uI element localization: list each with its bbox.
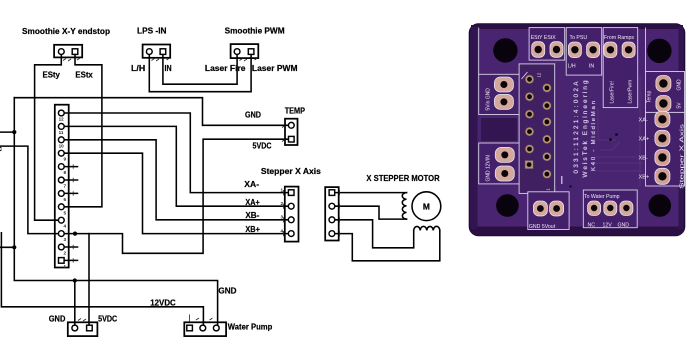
svg-text:1: 1 [64,264,67,269]
wire motor pin4 to coil L2 right [332,230,440,260]
svg-text:12: 12 [59,117,65,122]
pin J5.5 [58,164,64,170]
svg-text:GND 5Vout: GND 5Vout [529,224,556,230]
svg-text:XA-: XA- [244,179,259,189]
tick J2 pins [152,58,170,61]
pin J5.9 [58,217,64,223]
inductor L1 motor winding A [402,193,406,220]
pin J5.10 [58,231,64,237]
wire GND net top run to TEMP pin1 [14,98,291,126]
wire 5VDC drop to J8 pin2 [88,234,90,328]
svg-text:Temp: Temp [647,91,653,103]
svg-text:2: 2 [64,251,67,256]
wire GND branch left edge lower [0,246,14,248]
pin J9.2 [200,325,206,331]
svg-text:9: 9 [64,157,67,162]
junction dot GND upper left [12,130,16,134]
PCB vias [569,133,618,188]
svg-text:10: 10 [59,143,65,148]
wire ESty to pin9 [35,54,62,220]
stub strip pin7 [61,192,77,194]
svg-text:Smoothie PWM: Smoothie PWM [225,26,285,36]
motor M1 circle [412,192,441,221]
pin J5.8 [58,204,64,210]
svg-text:IN: IN [589,64,594,70]
svg-text:GND: GND [245,110,261,120]
pin J7.1 [329,190,335,196]
tick J1 pins [63,58,80,61]
pin J3.2 [248,49,254,55]
stub strip pin5 [61,166,77,168]
wire 5VDC net from left edge to pin10 to TEMP pin2 [0,139,291,253]
PCB mounting hole top-right [647,39,671,63]
pin J5.4 [58,150,64,156]
svg-text:GND: GND [218,286,236,296]
svg-text:5Vin GND: 5Vin GND [486,88,492,111]
connector J5 12-pin header strip [55,105,69,268]
svg-text:5VDC: 5VDC [98,314,117,324]
connector J8 GND/5VDC power [68,322,98,336]
wire strip pin3 to XB- [61,140,291,220]
pin J6.4 [288,231,294,237]
pin J6.1 [288,190,294,196]
pin J1.1 [58,49,64,55]
PCB mounting hole bottom-right [649,194,672,217]
svg-text:XA+: XA+ [639,137,650,143]
PCB rotated silkscreen labels [486,72,686,190]
pin J6.2 [288,203,294,209]
tick J9 pin1 [190,315,213,323]
stub strip pin6 [61,179,77,181]
stub strip pin11 [61,246,77,248]
PCB panel To PSU [566,28,602,76]
svg-text:X STEPPER MOTOR: X STEPPER MOTOR [366,173,439,183]
stub strip pin12 [61,259,77,261]
pin J5.12 [59,258,65,264]
PCB pads 5Vin GND [494,77,514,181]
tick J5 stub pins [72,164,74,262]
connector J2 LPS -IN [143,45,171,58]
PCB vertical id text [573,80,597,177]
svg-text:XB-: XB- [245,210,259,220]
svg-text:XB+: XB+ [245,224,260,234]
svg-text:IN: IN [165,63,172,73]
junction dot 5VDC at pin10 [73,232,77,236]
wire EStx to pin8 [61,54,102,206]
tick J6 wires [283,190,285,236]
svg-text:Laser PWM: Laser PWM [252,63,298,73]
PCB dark band bottom [470,227,685,236]
svg-text:0331:11221:4:002A: 0331:11221:4:002A [573,81,580,174]
PCB pads bottom connectors [533,201,633,216]
inductor L2 motor winding B [414,226,440,230]
PCB dark band left [471,27,478,229]
svg-text:3: 3 [64,237,67,242]
svg-text:XB+: XB+ [639,175,650,181]
svg-text:12: 12 [537,72,542,77]
pin J5.3 [58,137,64,143]
wire GND net vertical and bottom run to Water Pump pin3 [14,98,217,328]
svg-text:12V: 12V [603,223,613,229]
PCB panel Stepper X Axis [646,112,685,186]
pin J4.1 [288,122,294,128]
wire motor pin2 to coil L1 bottom [332,206,407,219]
wire LPS IN to Laser Fire [163,54,237,84]
pin J6.3 [288,217,294,223]
wire motor pin1 to coil L1 top [332,192,407,194]
PCB dark band top [471,25,683,29]
svg-text:2: 2 [281,201,284,206]
svg-text:Stepper X Axis: Stepper X Axis [680,123,686,189]
svg-text:12VDC: 12VDC [150,298,175,308]
pin J9.1 [187,325,193,331]
svg-text:TEMP: TEMP [285,105,306,115]
PCB panel To Water Pump [583,190,637,228]
connector J6 Stepper X Axis [285,187,299,242]
pin J8.2 [87,325,93,331]
svg-text:4: 4 [64,224,67,229]
PCB panel From Ramps [603,28,638,108]
svg-text:L/H: L/H [131,63,145,73]
PCB pads right column [655,76,671,185]
pin J7.3 [329,217,335,223]
connector J4 TEMP [285,119,298,145]
PCB photo board [470,24,686,236]
svg-text:GND: GND [49,314,66,324]
tick J4 pins [282,126,285,142]
pin J7.2 [329,203,335,209]
pin J2.2 [160,49,166,55]
svg-text:To PSU: To PSU [570,35,588,41]
pin J1.2 [72,49,78,55]
wire GND drop to J8 pin1 [74,281,76,329]
svg-text:XA+: XA+ [245,197,259,207]
tick J8 pins [78,319,86,322]
wire strip pin1 to XA- [61,113,291,193]
pin J5.6 [58,177,64,183]
svg-text:3: 3 [281,215,284,220]
svg-text:LaserFire!: LaserFire! [610,81,616,104]
PCB silkscreen labels [529,35,649,230]
svg-text:M: M [423,201,430,211]
svg-text:To Water Pump: To Water Pump [584,194,620,200]
svg-text:XA-: XA- [639,118,648,124]
PCB trace lines [522,60,665,192]
wire strip pin2 to XA+ [61,126,291,206]
svg-text:4: 4 [281,228,284,233]
svg-text:LPS -IN: LPS -IN [137,26,167,36]
svg-text:Laser Fire: Laser Fire [205,63,246,73]
svg-text:7: 7 [64,184,67,189]
PCB panel GND 12VIN [479,143,522,184]
pin J4.2 [289,136,295,142]
PCB pads top header row [532,42,635,58]
svg-text:Stepper X Axis: Stepper X Axis [261,166,321,176]
wire motor pin3 to coil L2 left [332,220,414,248]
PCB mounting hole top-left [493,38,517,62]
junction dot GND lower left [12,245,16,249]
wire strip pin4 to XB+ [61,153,291,233]
svg-text:5: 5 [64,210,67,215]
pin J3.1 [234,49,240,55]
PCB panel header strip [519,64,555,194]
svg-text:EStY EStX: EStY EStX [531,35,557,41]
PCB panel EStY/EStX [529,28,565,61]
tick J7 wires [339,190,341,236]
pin J5.7 [58,191,64,197]
svg-text:8: 8 [64,170,67,175]
PCB silkscreen tick [561,176,563,184]
svg-text:11: 11 [59,130,64,135]
PCB panel 5Vin GND [479,74,522,114]
svg-text:LaserPwm: LaserPwm [628,80,634,104]
svg-text:From Ramps: From Ramps [604,35,634,41]
svg-text:GND: GND [677,79,683,91]
svg-text:EStx: EStx [75,70,93,80]
pin J8.1 [72,325,78,331]
connector J3 Smoothie PWM [231,44,259,58]
svg-text:6: 6 [64,197,67,202]
wire LPS L/H to Laser PWM [149,54,251,91]
PCB panel empty dark [481,118,517,141]
svg-text:5VDC: 5VDC [253,141,272,151]
pin J9.3 [213,325,219,331]
PCB silkscreen corner lines [479,28,646,80]
pin J5.1 [58,110,64,116]
junction dot GND at J8 drop [73,278,77,282]
connector J1 Smoothie X-Y endstop [54,45,82,58]
svg-text:c: c [0,146,2,153]
PCB panel Temp [646,72,685,113]
svg-text:Water Pump: Water Pump [228,322,272,332]
pin J5.11 [58,244,64,250]
PCB mounting hole bottom-left [496,194,519,217]
pin J7.4 [329,231,335,237]
wire GND branch left edge upper [0,131,14,133]
svg-text:GND 12VIN: GND 12VIN [486,155,492,182]
PCB dark band right [679,27,684,229]
wire 12VDC from left edge to Water Pump pin2 [1,233,203,328]
pin J5.2 [58,124,64,130]
svg-text:Smoothie X-Y endstop: Smoothie X-Y endstop [22,26,110,36]
svg-text:GND: GND [618,223,630,229]
tick J3 pins [240,58,258,61]
svg-text:L/H: L/H [568,64,576,70]
svg-text:ESty: ESty [43,70,61,80]
PCB panel GND 5Vout [528,192,569,230]
pin J2.1 [146,49,152,55]
svg-text:XB-: XB- [639,156,648,162]
connector J7 X stepper motor plug [325,187,339,240]
svg-text:1: 1 [281,188,284,193]
connector J9 Water Pump [184,322,226,336]
svg-text:5V: 5V [677,102,683,109]
PCB header strip pads [525,75,551,179]
svg-text:NC: NC [588,223,596,229]
